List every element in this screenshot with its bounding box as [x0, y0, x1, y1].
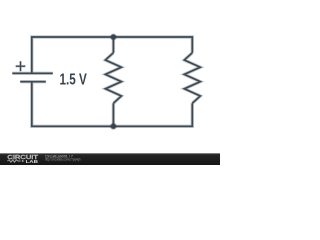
svg-text:1.5 V: 1.5 V [60, 72, 88, 89]
svg-text:LAB: LAB [26, 159, 38, 164]
circuit dark core pass [12, 37, 200, 126]
CircuitLab logo: resistor zigzag [7, 160, 20, 162]
junction node top (dot) [110, 33, 117, 40]
circuit soft halo pass [12, 37, 200, 126]
junction node bottom (dot) [110, 123, 117, 130]
watermark bar [0, 153, 220, 165]
CircuitLab logo: arrow [22, 160, 25, 162]
svg-text:http://circuitlab.com/c/7pq4qh: http://circuitlab.com/c/7pq4qh [45, 158, 81, 162]
